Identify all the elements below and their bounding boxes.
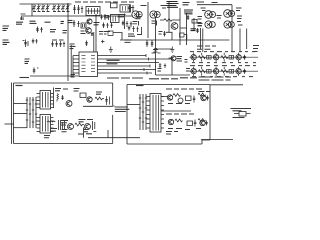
capacitor row C13 <box>51 40 65 47</box>
box L label "L CH" <box>16 85 23 87</box>
label near vertical <box>70 44 76 49</box>
label text mid <box>25 59 30 63</box>
capacitor C17 <box>196 28 199 33</box>
pin component marks <box>144 54 150 75</box>
label text <box>183 2 218 5</box>
capacitor bank C1-C4 (tuning section A) <box>33 4 49 12</box>
coupling box T2b <box>111 3 118 8</box>
tube V5 labels <box>198 16 222 23</box>
wire vertical to IC <box>95 14 97 52</box>
wire cable bottom connector <box>14 127 28 129</box>
cable harness left box <box>26 97 37 128</box>
R upper stage cluster <box>166 89 210 104</box>
wire vertical branch <box>70 45 72 77</box>
ground G2 <box>170 47 174 53</box>
label text row <box>16 20 73 24</box>
speaker terminal block far right <box>231 109 252 118</box>
antenna coil L1 <box>20 14 26 20</box>
label text <box>94 23 100 25</box>
component X1 with wire corner <box>104 31 122 40</box>
resistor R2 cluster <box>102 23 112 29</box>
connector J1 (IC-like block upper) <box>37 91 54 110</box>
wire vertical x190 <box>187 13 195 45</box>
capacitor C10 <box>128 5 134 13</box>
capacitor cluster mid-left <box>36 27 43 33</box>
box L outline (left channel block) <box>12 83 113 145</box>
output row 1 components <box>190 52 259 63</box>
capacitor C18 above IC <box>85 41 88 47</box>
output row 2 components <box>190 66 259 77</box>
value labels under bank <box>33 11 70 13</box>
wire top frame <box>197 5 232 52</box>
IF transformer T3 (box) <box>111 15 120 23</box>
transistor Q1 <box>87 19 92 24</box>
wire vertical x180 <box>179 8 181 45</box>
preamp cluster <box>152 49 191 76</box>
label marks mid band <box>153 50 158 53</box>
caption above box L <box>20 77 30 79</box>
capacitor C9 cluster <box>73 5 83 14</box>
wire vertical x124 <box>123 14 125 30</box>
wire external stub <box>5 123 14 125</box>
left margin label A <box>3 26 10 30</box>
connector J2 (IC-like block lower) <box>37 115 54 134</box>
caption text 3 <box>180 77 197 79</box>
tube V2 label <box>161 6 167 9</box>
pin label text <box>107 60 120 64</box>
tube V2 base marks <box>152 21 157 26</box>
L upper stage cluster <box>54 88 110 109</box>
caption text 2 <box>149 78 178 80</box>
wire drop to speaker line <box>84 128 109 138</box>
section divider wire <box>147 2 149 38</box>
tube V4 (double circle) <box>224 10 235 18</box>
IF transformer T1 (box) <box>86 7 100 16</box>
dense label block 2 <box>184 10 193 14</box>
L lower stage cluster <box>47 120 96 135</box>
label dark marks <box>191 29 197 31</box>
label text above IF strip <box>75 1 134 3</box>
caption text 1 <box>107 77 143 79</box>
component box K1 <box>192 20 197 24</box>
ground G1 <box>109 47 113 53</box>
label text above output rows <box>197 46 259 52</box>
IC U1 left pins <box>73 56 79 77</box>
box R outline (right channel block) <box>127 85 210 145</box>
capacitor C15 pair <box>146 40 154 47</box>
wire horizontal y28 <box>180 27 187 29</box>
wire input L2 <box>14 113 28 115</box>
label text <box>198 24 203 26</box>
wire top extension <box>210 84 243 86</box>
IC U1 (main amplifier IC) <box>79 52 98 77</box>
plus mark <box>101 40 105 44</box>
wire input L1 <box>14 103 28 105</box>
resistor R3 cluster <box>122 21 132 28</box>
capacitor C11 <box>73 20 80 27</box>
tube V6 labels <box>198 16 243 26</box>
wire + resistor R4 row <box>160 19 180 22</box>
trimmer arrows bank B <box>52 5 69 10</box>
wire speaker R <box>201 139 233 141</box>
tube V2 (double circle) <box>150 11 160 18</box>
connector J3 (IC-like block) <box>147 94 165 133</box>
transistor Q2 <box>171 23 178 30</box>
component X2 capacitor <box>159 31 173 40</box>
tube V1 base cluster <box>133 21 139 26</box>
wire speaker L <box>88 137 140 139</box>
label marks mid <box>99 32 110 35</box>
wire bus y40 <box>120 39 230 41</box>
component cluster D1 <box>32 39 38 44</box>
label text <box>118 15 126 17</box>
left margin label B <box>3 40 10 44</box>
tube V6 (double circle) <box>224 21 234 28</box>
text block between boxes <box>115 107 130 112</box>
tube V3 (double circle) <box>205 11 216 19</box>
capacitor C16 <box>187 15 190 20</box>
capacitor bank C5-C8 (tuning section B) <box>53 4 69 12</box>
component X3 <box>180 33 187 40</box>
dense label block <box>167 2 179 8</box>
mixer stage M1 cluster <box>81 23 94 36</box>
IF transformer T2 (box) <box>120 5 131 12</box>
wire main left vertical <box>67 3 69 81</box>
capacitor C12 <box>23 40 29 48</box>
tube V5 (double circle) <box>205 21 215 28</box>
wire vertical x200 <box>200 28 202 49</box>
caption line left <box>30 75 78 77</box>
label text above IC right <box>125 40 132 42</box>
wire top rail of tuning bank <box>20 4 72 16</box>
label marks below IC <box>71 75 76 78</box>
wire output L <box>83 105 115 107</box>
section divider wire 2 <box>168 2 170 32</box>
wire input R <box>127 104 140 106</box>
IC U1 right pin wires <box>98 56 173 74</box>
wire mid pin right box <box>161 97 191 112</box>
label text bottom right box <box>166 132 178 135</box>
wire vertical above IC 2 <box>93 32 95 52</box>
wire drops to output rows <box>203 29 247 53</box>
wire oscillator vertical <box>156 17 173 76</box>
label text mid-left <box>50 30 67 33</box>
caption text right rows <box>199 77 232 80</box>
box R label "R CH" <box>136 85 144 87</box>
cable harness right box <box>139 94 147 130</box>
label text near tubes <box>136 17 142 19</box>
wire bus rail <box>22 15 133 17</box>
tube V1 (double circle) <box>132 11 142 18</box>
capacitor C14 <box>33 68 39 74</box>
resistor R1 cluster <box>100 14 109 20</box>
tube V1 label <box>129 6 147 8</box>
tube V3 label <box>201 8 206 11</box>
label text small <box>104 16 109 18</box>
oscillator cluster SE <box>128 26 142 37</box>
label text lower cluster <box>44 121 89 138</box>
tube V4 label <box>236 8 242 11</box>
trimmer arrows bank A <box>32 5 49 10</box>
R lower stage cluster <box>166 114 208 130</box>
